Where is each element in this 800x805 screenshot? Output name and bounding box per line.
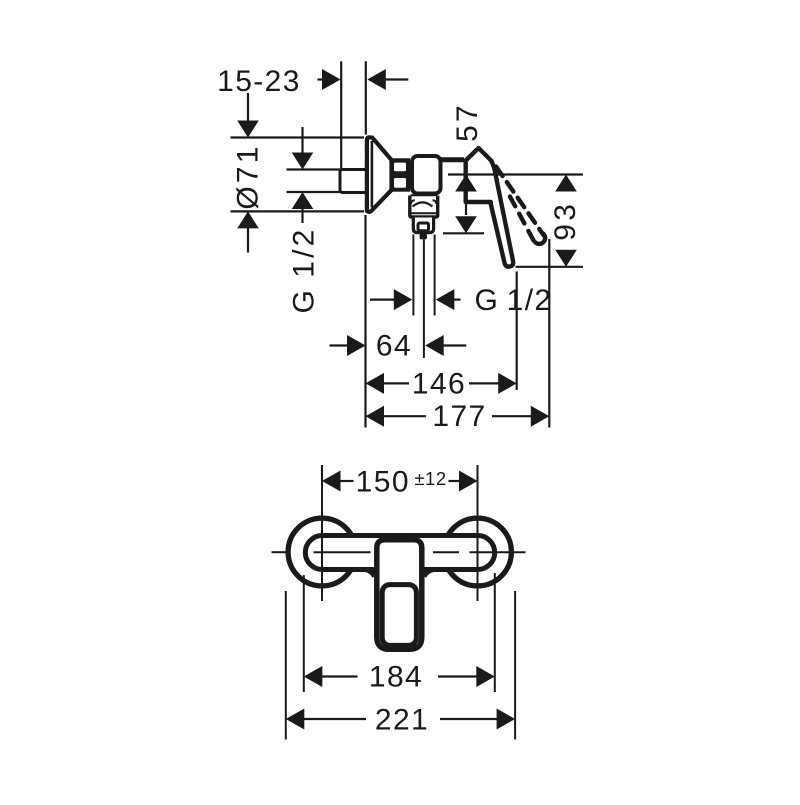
93 dimension up arrow [555,175,577,192]
dimension 146 right arrow [469,382,499,384]
horizontal centerline left segment [272,551,286,553]
extension line 221 left [285,591,287,740]
svg-text:Ø71: Ø71 [232,143,265,209]
svg-text:184: 184 [369,661,423,694]
handle paddle outer [377,540,422,650]
dimension 64 left arrow [330,344,350,346]
dimension 177 left arrow [366,406,385,427]
dimension 177 right arrow [492,415,532,417]
horizontal centerline left-middle segment [314,551,371,553]
extension line solid lever tip [516,272,518,391]
dimension 150 left arrow [322,471,341,492]
left vertical centerline [321,465,323,601]
horizontal centerline right-middle segment [433,551,459,553]
handle base and lever [466,148,513,267]
body capsule bar [305,536,494,570]
hose thread G1/2 right arrow [436,289,455,310]
raised lever tip hook [535,234,545,244]
left wall flange circle [288,518,356,586]
horizontal centerline right segment [470,551,526,553]
hose tab [420,234,427,240]
G1/2 wall-pipe top extension line [287,168,341,170]
G1/2 wall dimension bottom arrow [292,192,314,209]
57 dimension down arrow [455,216,477,233]
hose centerline [423,240,425,359]
57 dimension stem [465,191,467,216]
svg-text:15-23: 15-23 [217,65,301,98]
93 dimension down arrow [555,250,577,267]
dimension 150 right arrow [449,480,461,482]
raised lever outer dashed line [496,167,544,236]
outlet nut lower line [411,212,437,214]
outlet nut below body [410,196,438,218]
extension line raised lever tip [548,239,550,428]
svg-text:G 1/2: G 1/2 [474,284,552,317]
svg-text:±12: ±12 [414,468,446,489]
57/93 top reference line [448,173,583,175]
dimension 64 right arrow [425,335,444,356]
extension line 221 right [514,591,516,740]
G1/2 wall-pipe bottom extension line [287,191,341,193]
dimension 221 left arrow [286,709,305,730]
svg-text:93: 93 [549,201,582,241]
dimension 221 right arrow [440,718,498,720]
dimension 184 left arrow [304,666,323,687]
capsule-paddle fillet left [365,570,375,577]
extension line 184 right [494,573,496,692]
G1/2 wall dimension top arrow [301,127,303,154]
dimension 15-23 left arrow (points right at wall line) [322,69,341,90]
connector white notch upper [394,163,406,172]
dimension 15-23 right arrow (points left at pipe-end line) [367,69,386,90]
raised lever inner dashed line [507,191,534,241]
57 dimension up arrow [455,175,477,192]
right vertical centerline [477,465,479,601]
svg-text:146: 146 [412,367,466,400]
valve body [412,156,441,194]
hose outline right line [434,235,436,316]
outlet nut top line [411,194,438,196]
hose nipple square [418,223,429,231]
connector white notch lower [394,178,406,188]
handle bar [441,157,464,162]
dimension 146 left arrow [366,373,385,394]
hose outline left line [412,235,414,316]
escutcheon inner edge line [371,141,374,208]
right wall flange circle [444,518,512,586]
svg-text:G 1/2: G 1/2 [288,226,321,313]
hose coupling [413,218,433,233]
57 bottom reference line [443,232,484,234]
connector block between escutcheon and body [390,158,411,191]
svg-text:150: 150 [356,465,410,498]
svg-text:64: 64 [376,330,412,363]
outlet nut dome [413,202,433,206]
93 bottom reference line [516,266,584,268]
dimension Ø71 bottom reference line [231,210,365,212]
capsule-paddle fillet right [424,570,434,577]
extension line 184 left [303,575,305,692]
dimension Ø71 top reference line [231,136,365,138]
extension line wall (64/146/177 left) [364,215,366,428]
hose thread G1/2 left arrow [370,299,395,301]
handle paddle inner [382,585,416,646]
dimension Ø71 bottom arrow [237,211,259,228]
svg-text:221: 221 [375,704,429,737]
svg-text:57: 57 [451,102,484,142]
dimension 184 right arrow [438,675,477,677]
wall pipe stub [340,170,367,193]
escutcheon bell outline [367,137,392,211]
svg-text:177: 177 [432,400,486,433]
pipe-end extension line [365,61,367,134]
wall extension line [340,61,342,169]
dimension Ø71 top arrow [247,93,249,122]
